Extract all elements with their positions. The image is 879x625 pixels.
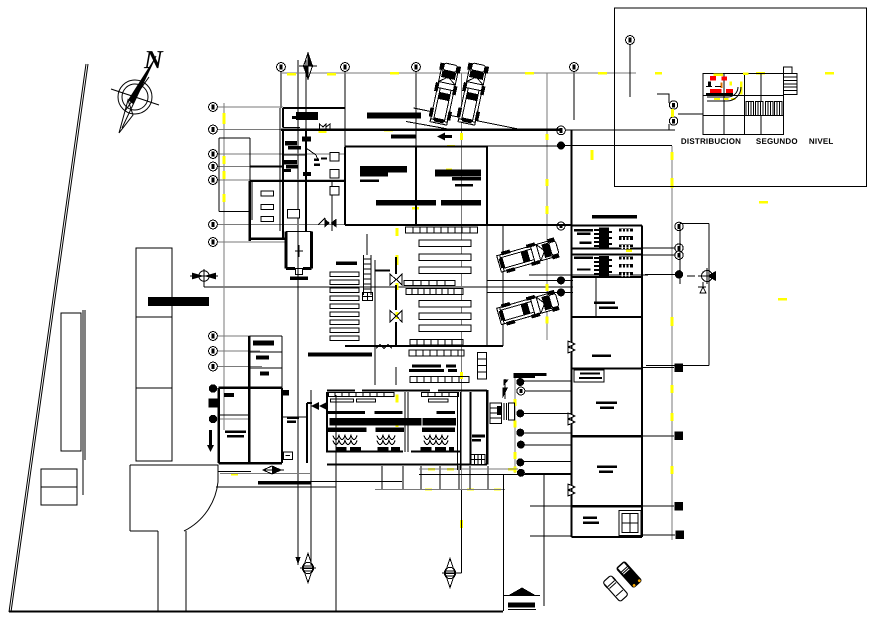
stair column kitchen <box>478 352 487 379</box>
top cells band <box>406 227 478 233</box>
chevron arrows <box>311 402 327 410</box>
driveway arc structure <box>130 465 218 612</box>
car 2 outline <box>602 575 629 603</box>
aisle double lines <box>405 392 461 470</box>
bottom site line <box>9 610 503 612</box>
corridor arrow <box>437 133 452 141</box>
top grid bubbles <box>277 36 635 97</box>
hall interior bars <box>360 166 407 173</box>
mid cells bands <box>404 281 455 286</box>
descending verticals bottom centre <box>336 395 488 612</box>
right-side bubbles x679 <box>557 126 685 539</box>
corridor walls x307-312 <box>307 403 312 463</box>
tall mid rect upper <box>136 248 172 317</box>
small 2-cell box lower left <box>41 469 77 505</box>
door cells bottom <box>746 102 782 116</box>
bottom room grid box <box>619 511 641 536</box>
tank room (cistern) <box>286 232 312 269</box>
bottom squares row <box>336 447 455 451</box>
gray vertical grid line A x224 <box>223 103 225 430</box>
strip line <box>83 310 85 495</box>
plaza boundary verticals <box>503 474 544 611</box>
down arrow symbol left <box>207 430 214 452</box>
truck top 1 <box>428 62 462 126</box>
right wing rooms below <box>572 277 643 537</box>
kitchen zone walls above food court <box>375 346 396 385</box>
dotted band <box>327 411 455 414</box>
bottom cells band <box>410 340 463 346</box>
gray vertical x547 <box>546 73 548 340</box>
right wing room labels <box>592 354 611 357</box>
small box 284,452 <box>284 452 293 460</box>
diagonal ramp lines truck bay <box>414 108 524 130</box>
yellow dashes <box>223 72 835 528</box>
toilet fixtures room1 <box>574 228 612 248</box>
corridor arc band <box>707 87 741 101</box>
plan red rects <box>710 76 733 93</box>
gray vertical x672 <box>671 146 673 540</box>
white box at 287,209 <box>288 210 300 219</box>
gray vertical x461 <box>461 73 463 573</box>
comb band <box>327 427 367 432</box>
right service yard walls <box>487 225 503 346</box>
boxed label almacen util <box>574 370 604 382</box>
stall row rects lower <box>419 301 471 308</box>
level symbol bottom 1 <box>300 554 316 583</box>
vertical to level symbol 1 <box>311 484 462 573</box>
tall mid rect lower <box>136 317 172 461</box>
corridor bar <box>391 135 416 139</box>
left wing outer <box>283 130 306 239</box>
right room of foodcourt <box>472 435 485 438</box>
toilet fixtures room2 <box>574 256 612 276</box>
hall bottom wall y225 <box>345 224 571 226</box>
kite symbol top x308 <box>299 53 317 79</box>
inset border <box>615 8 867 186</box>
long black bar left of sala <box>308 353 372 357</box>
gray vertical x278 <box>280 71 282 108</box>
market stall area left wall <box>395 257 397 346</box>
small dashes middle <box>314 159 319 162</box>
bowtie door 1 <box>390 274 402 285</box>
ladder element <box>364 255 372 295</box>
door bowtie lower-left wing <box>325 219 337 228</box>
north arrow <box>111 56 159 133</box>
food court boundary <box>327 390 487 465</box>
BUILDING <box>207 53 716 612</box>
truck right 1 <box>496 237 560 275</box>
left arrow kite symbol <box>263 466 284 474</box>
horizontal lines through food court <box>524 381 571 474</box>
black bar top-left room <box>296 112 318 120</box>
sala de espera text <box>409 365 457 373</box>
top long bar above corridor <box>367 113 421 119</box>
column of 3 white rects x332 <box>330 153 339 162</box>
toilets block top bar <box>592 215 637 219</box>
truck top 2 <box>456 62 490 126</box>
stall row rects upper <box>419 240 471 247</box>
svg-text:NIVEL: NIVEL <box>809 137 834 146</box>
svg-text:PASO DE SERVICIO: PASO DE SERVICIO <box>0 0 50 1</box>
right wing top: left wall x571 <box>570 130 572 537</box>
table bars thin <box>331 399 354 402</box>
plan yellow bits <box>714 73 749 100</box>
long thin line y287 <box>204 286 573 288</box>
inset bubble pair with bracket <box>669 101 677 109</box>
small label left rooms <box>287 417 299 420</box>
gray line y489 <box>375 488 505 490</box>
corridor main wall y130 <box>281 129 561 131</box>
gray vertical x416 <box>415 67 417 147</box>
svg-text:DISTRIBUCION: DISTRIBUCION <box>681 137 741 146</box>
property diagonal boundary double line <box>9 64 88 612</box>
stairs column small rects x261-274 <box>261 191 273 196</box>
left stripes rows <box>330 272 359 341</box>
hall dividing walls <box>345 147 487 226</box>
door swing right of tank <box>318 218 325 225</box>
SITE <box>9 45 573 612</box>
black bar over mid rect <box>148 297 209 306</box>
plan black bits <box>706 93 733 95</box>
window breaks on left wall <box>568 341 575 353</box>
left grid bubbles x213 <box>209 103 218 424</box>
market bottom wall <box>345 345 503 347</box>
big dense band <box>330 418 422 426</box>
cells band upper <box>409 350 464 356</box>
food court outer <box>219 336 282 463</box>
chairs scallop clusters <box>333 436 448 445</box>
plan orange dash <box>721 83 723 89</box>
vertical x574 <box>573 67 575 120</box>
corridor fixtures x487-503 <box>490 403 502 423</box>
black bar service yard <box>514 373 547 376</box>
stairs block right <box>783 74 797 95</box>
door M top corridor <box>320 124 331 131</box>
car 1 dark <box>616 561 642 588</box>
plan grid <box>703 74 783 135</box>
cells band top foodcourt <box>328 392 394 396</box>
toilets rooms <box>572 226 643 278</box>
svg-text:N: N <box>143 45 164 74</box>
INSET <box>615 8 867 186</box>
truck right 2 <box>496 289 560 327</box>
cells band lower <box>410 376 469 382</box>
gray vertical x345 <box>344 67 346 146</box>
entrance arrow bottom <box>508 588 536 596</box>
neighbour building rect left <box>61 313 81 451</box>
level symbol bottom 2 <box>442 559 462 588</box>
top-left room block <box>283 108 345 128</box>
stairs hatch right of market (x505-516) <box>509 403 515 420</box>
bowtie door 2 <box>390 311 402 323</box>
vertical pair x298 x306 full height <box>298 60 306 565</box>
right mid bubbles x520 column <box>516 378 525 477</box>
svg-text:SEGUNDO: SEGUNDO <box>756 137 798 146</box>
small plan outer <box>703 74 783 135</box>
stripe header bar <box>336 262 357 266</box>
down pennants x505 <box>503 379 509 398</box>
level symbol left <box>190 269 218 283</box>
right horizontal grid extension lines <box>565 130 675 146</box>
level symbol right side <box>687 268 716 284</box>
tiny text room <box>225 431 246 434</box>
grid box bottom <box>471 455 485 465</box>
thin grid horizontals from left bubbles <box>217 107 345 419</box>
small room bars <box>253 341 274 346</box>
gray horizontal y73 <box>281 72 636 74</box>
bottom lines <box>219 470 251 472</box>
DETAILS <box>0 0 642 602</box>
paso de servicio corridor <box>646 223 709 365</box>
left wing bars <box>285 141 297 146</box>
hall top wall y146.5 <box>345 145 487 147</box>
